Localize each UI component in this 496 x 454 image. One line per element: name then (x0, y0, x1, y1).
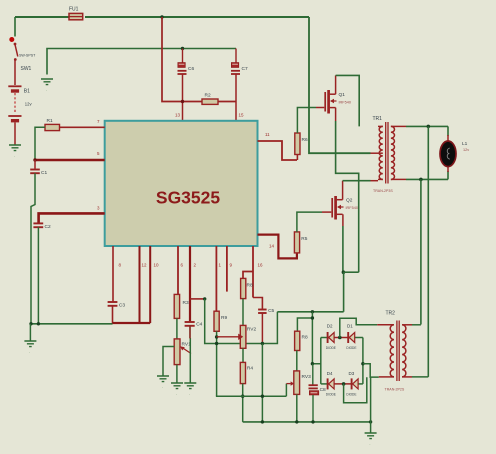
svg-text:15: 15 (239, 113, 245, 118)
node: junction pin13 / R2 row (181, 100, 184, 103)
potentiometer RV3 (294, 371, 311, 395)
capacitor C8 (309, 385, 327, 395)
wire: long horizontal sense line (277, 311, 343, 313)
wire: bridge right node (362, 338, 364, 384)
ground (RV1) (171, 383, 183, 396)
capacitor C6 (178, 49, 195, 75)
svg-text:C1: C1 (41, 170, 47, 176)
resistor R6 (295, 133, 308, 160)
svg-text:.: . (29, 349, 30, 354)
wire: R1 left to CT node (35, 127, 45, 160)
wire: C6 to pin 13 (182, 74, 184, 121)
wire: bridge bottom loop (344, 377, 367, 402)
wire: rail to switch SW1 (14, 17, 16, 37)
pin number 5 (97, 151, 100, 156)
wire: Q1 drain loop to TR1 top (336, 75, 360, 126)
wire: pin 5 (34, 159, 105, 162)
ground (left rail) (24, 324, 36, 354)
wire: bridge top row (321, 337, 363, 339)
svg-text:.: . (14, 153, 15, 158)
svg-text:R4: R4 (247, 366, 253, 372)
svg-text:D3: D3 (349, 371, 355, 376)
transformer TR2 TRAN-2P2S (377, 311, 412, 392)
pin number 7 (97, 119, 100, 124)
svg-text:R9: R9 (221, 315, 227, 321)
ground (main bottom) (365, 422, 377, 446)
wire: TR2 right bottom lead (412, 376, 428, 378)
wire: bridge top to TR2 top (340, 318, 377, 337)
wire: R4 down through rail1 to rail2 (242, 384, 244, 422)
wire: battery rail to TR1 centre tap (309, 17, 378, 153)
pin number 16 (258, 263, 264, 268)
resistor R5 (294, 232, 307, 253)
resistor R8 (241, 278, 253, 298)
svg-text:TR1: TR1 (373, 116, 383, 122)
wire: divider vertical to bridge left (312, 312, 320, 364)
node: C1 rail junction (29, 322, 32, 325)
diode D1 (346, 324, 356, 350)
wire: R7 to RV3 (296, 351, 298, 371)
svg-text:IRF540: IRF540 (346, 206, 358, 210)
svg-text:.: . (162, 384, 163, 389)
wire: pin 2 branch to error amp node (190, 298, 205, 300)
resistor R4 (240, 362, 253, 383)
wire: switch to battery (14, 60, 16, 85)
wire: R9 bottom to rail1 (216, 331, 218, 396)
wire: C8 to rail2 (312, 395, 314, 422)
svg-text:.: . (369, 441, 370, 446)
wire: Q1 source down (336, 108, 359, 273)
svg-text:TRAN-2P2S: TRAN-2P2S (385, 388, 405, 392)
wire: battery- to ground (14, 123, 16, 145)
pin number 1 (219, 263, 222, 268)
resistor R1 (45, 118, 60, 131)
wire: pin 11 to R6 (258, 141, 298, 160)
svg-text:R8: R8 (247, 283, 253, 289)
transistor Q2 IRF540 (332, 196, 358, 220)
svg-text:.: . (46, 87, 47, 92)
transistor Q1 IRF540 (325, 90, 351, 114)
wire: Q2 drain to TR1 bottom (343, 181, 378, 200)
pin number 14 (269, 244, 275, 249)
node: C2 rail junction (37, 322, 40, 325)
op-amp / PWM IC U1 SG3525 (105, 121, 258, 246)
svg-text:DIODE: DIODE (346, 346, 356, 350)
lamp L1 (440, 141, 469, 167)
wire: output feedback right vertical (427, 126, 429, 377)
capacitor C3 (108, 302, 126, 309)
resistor R2 (202, 93, 218, 105)
wire: battery+ top rail (15, 16, 309, 18)
wire: grounded rail for C6 C7 (47, 49, 236, 75)
svg-text:R3: R3 (183, 300, 189, 306)
node: output top junction (427, 125, 431, 129)
svg-text:10: 10 (154, 263, 160, 268)
potentiometer RV2 (238, 325, 256, 348)
wire: Q2 source down (342, 214, 344, 272)
svg-text:B1: B1 (24, 89, 30, 95)
pin number 13 (175, 113, 181, 118)
wire: bridge left node (320, 338, 322, 384)
wire: bridge right to TR2 bottom (363, 364, 379, 377)
wire: R6 to Q1 gate (297, 108, 324, 134)
node: R9/error-amp junction (215, 342, 218, 345)
wire: pin 16 jog to R8 (243, 272, 253, 279)
svg-text:D2: D2 (327, 324, 333, 329)
ground (battery) (9, 145, 21, 158)
svg-text:C2: C2 (45, 224, 51, 230)
svg-text:C5: C5 (268, 308, 274, 314)
svg-text:C4: C4 (196, 322, 202, 328)
ground (C4) (184, 383, 196, 396)
svg-text:.: . (189, 391, 190, 396)
wire: sources joint (343, 271, 358, 273)
wire: C7 to pin 15 (235, 74, 237, 121)
pin number 6 (181, 263, 184, 268)
svg-text:DIODE: DIODE (326, 392, 336, 396)
wire: rail1 (216, 395, 287, 397)
svg-text:SW-SPST: SW-SPST (19, 54, 36, 58)
svg-text:12: 12 (142, 263, 148, 268)
wire: C2 to ground rail (37, 227, 39, 324)
capacitor C4 (185, 322, 203, 328)
wire: TR2 bottom node to ground rail (370, 377, 372, 422)
wire: C8 hang (312, 364, 314, 385)
wire: RV3 to rail2 (296, 394, 298, 422)
wire: pin16 net to C5 (253, 298, 262, 309)
wire: C1 to ground rail (jog) (31, 173, 35, 324)
svg-text:R6: R6 (302, 137, 308, 143)
wire: C4 to ground (189, 326, 191, 383)
svg-text:C7: C7 (242, 66, 248, 72)
ground (RV1 left) (157, 376, 169, 389)
diode D3 (346, 371, 358, 396)
wire: TR2 right top lead (412, 324, 421, 326)
svg-text:RV3: RV3 (302, 374, 312, 380)
wire: RV2 to R4 (242, 348, 244, 362)
svg-text:Q1: Q1 (339, 92, 346, 98)
fuse FU1 (69, 7, 83, 20)
node: C5 junction (261, 342, 264, 345)
svg-text:Q2: Q2 (346, 198, 353, 204)
svg-text:DIODE: DIODE (346, 392, 356, 396)
switch SW1 (9, 37, 36, 72)
wire: source net to sense line (343, 272, 345, 312)
node: R9/RV2 wiper junction (215, 335, 218, 338)
wire: pin 3 (39, 213, 105, 222)
node: pin2 branch corner (203, 297, 206, 300)
svg-text:13: 13 (175, 113, 181, 118)
svg-text:C6: C6 (188, 66, 194, 72)
pin number 11 (265, 132, 270, 137)
resistor R3 (174, 294, 189, 318)
wire: C3 to rail (red) (112, 306, 114, 323)
resistor R7 (295, 331, 308, 350)
node: output bottom junction (419, 178, 423, 182)
svg-text:R5: R5 (301, 236, 307, 242)
pin number 3 (97, 206, 100, 211)
node: rail2 junction C5 (261, 420, 264, 423)
node: VCC tap on top rail (160, 15, 163, 18)
svg-text:R1: R1 (47, 118, 53, 124)
wire: bridge bottom row (321, 383, 363, 385)
node: R4/rail1 junction (241, 395, 244, 398)
wire: VCC drop to R2 row (162, 17, 202, 102)
node: R7 link junction (311, 316, 314, 319)
node: rail2 junction RV3 (295, 420, 298, 423)
node: bridge right tap (361, 362, 364, 365)
svg-text:FU1: FU1 (69, 7, 79, 13)
wire: R5 to Q2 gate (297, 212, 331, 232)
svg-text:L1: L1 (462, 141, 468, 147)
wire: pin 8 to C3 (112, 246, 114, 301)
node: C6 junction on ground rail (181, 47, 184, 50)
svg-text:12v: 12v (463, 148, 469, 152)
svg-text:SW1: SW1 (21, 66, 32, 72)
wire: R2 to pin15 line (218, 101, 236, 103)
node: bridge bottom-centre (342, 382, 346, 386)
diode D2 (326, 324, 336, 350)
battery B1 12v (8, 86, 32, 120)
svg-text:14: 14 (269, 244, 275, 249)
potentiometer RV1 (174, 339, 191, 365)
wire: pin 7 to R1 (60, 126, 105, 128)
pin number 15 (239, 113, 245, 118)
svg-text:D1: D1 (347, 324, 353, 329)
svg-text:TRAN-2P3S: TRAN-2P3S (373, 189, 393, 193)
wire: C5 bottom to error-amp rail (261, 313, 263, 344)
diode D4 (326, 371, 336, 396)
svg-text:IRF540: IRF540 (339, 101, 351, 105)
transformer TR1 TRAN-2P3S (373, 116, 397, 193)
wire: output feedback left vertical (420, 179, 422, 324)
resistor R9 (214, 311, 227, 331)
wire: R8 to RV2 (242, 299, 244, 326)
svg-text:C3: C3 (119, 303, 125, 309)
node: rail2 junction C8 (311, 420, 314, 423)
svg-text:RV2: RV2 (247, 327, 257, 333)
svg-text:16: 16 (258, 263, 264, 268)
svg-text:DIODE: DIODE (326, 346, 336, 350)
wire: bottom-left ground rail (30, 323, 112, 325)
svg-text:R2: R2 (205, 93, 211, 99)
capacitor C5 (258, 308, 274, 314)
node: rail2 end junction (369, 420, 372, 423)
node: sense line / divider tap (311, 310, 314, 313)
wire: RV2 wiper wire (217, 336, 239, 338)
pin number 9 (230, 263, 233, 268)
node: bridge top-centre (338, 336, 342, 340)
wire: RV1 bottom to ground (176, 365, 178, 383)
pin number 2 (194, 263, 197, 268)
capacitor C1 (30, 160, 47, 176)
node: CT junction (33, 158, 36, 161)
wire: red ground rail segment pins 12,10 (113, 322, 151, 324)
ground (C6/C7 rail) (41, 79, 53, 92)
wire: pin 2 down to C4 (189, 246, 191, 321)
wire: pin 10 down (149, 246, 151, 323)
svg-text:SG3525: SG3525 (156, 188, 220, 208)
pin number 8 (119, 263, 122, 268)
wire: TR1 secondary bottom to lamp (396, 166, 448, 179)
svg-text:.: . (176, 391, 177, 396)
svg-text:12v: 12v (25, 102, 33, 107)
wire: pin 16 down (252, 246, 254, 298)
wire: pin 6 to R3 (177, 246, 179, 294)
node: source join (342, 270, 346, 274)
wire: R7 top link (297, 318, 312, 331)
svg-text:R8: R8 (302, 335, 308, 341)
svg-text:D4: D4 (327, 371, 333, 376)
svg-text:TR2: TR2 (386, 311, 396, 317)
wire: pin 12 down (139, 246, 141, 323)
wire: TR1 secondary top to lamp (396, 126, 448, 141)
node: rail1 crossing (261, 395, 264, 398)
wire: R3 to RV1 (176, 318, 178, 339)
node: divider/C8 junction (311, 362, 314, 365)
svg-text:11: 11 (265, 132, 270, 137)
wire: pin 1 to R9 (215, 246, 217, 311)
pin number 12 (142, 263, 148, 268)
wire: rail1 to RV3 wiper (286, 381, 294, 396)
pin number 10 (154, 263, 160, 268)
wire: pin 14 to R5 (258, 235, 297, 259)
wire: pin 9 stub (226, 246, 228, 292)
capacitor C2 (33, 223, 51, 230)
wire: RV1 left terminal to ground (163, 347, 174, 376)
wire: C5 node down to rail2 (261, 344, 263, 422)
wire: rail2 bottom ground rail (243, 421, 371, 423)
wire: error amp node down and right (205, 299, 278, 344)
capacitor C7 (231, 49, 248, 75)
